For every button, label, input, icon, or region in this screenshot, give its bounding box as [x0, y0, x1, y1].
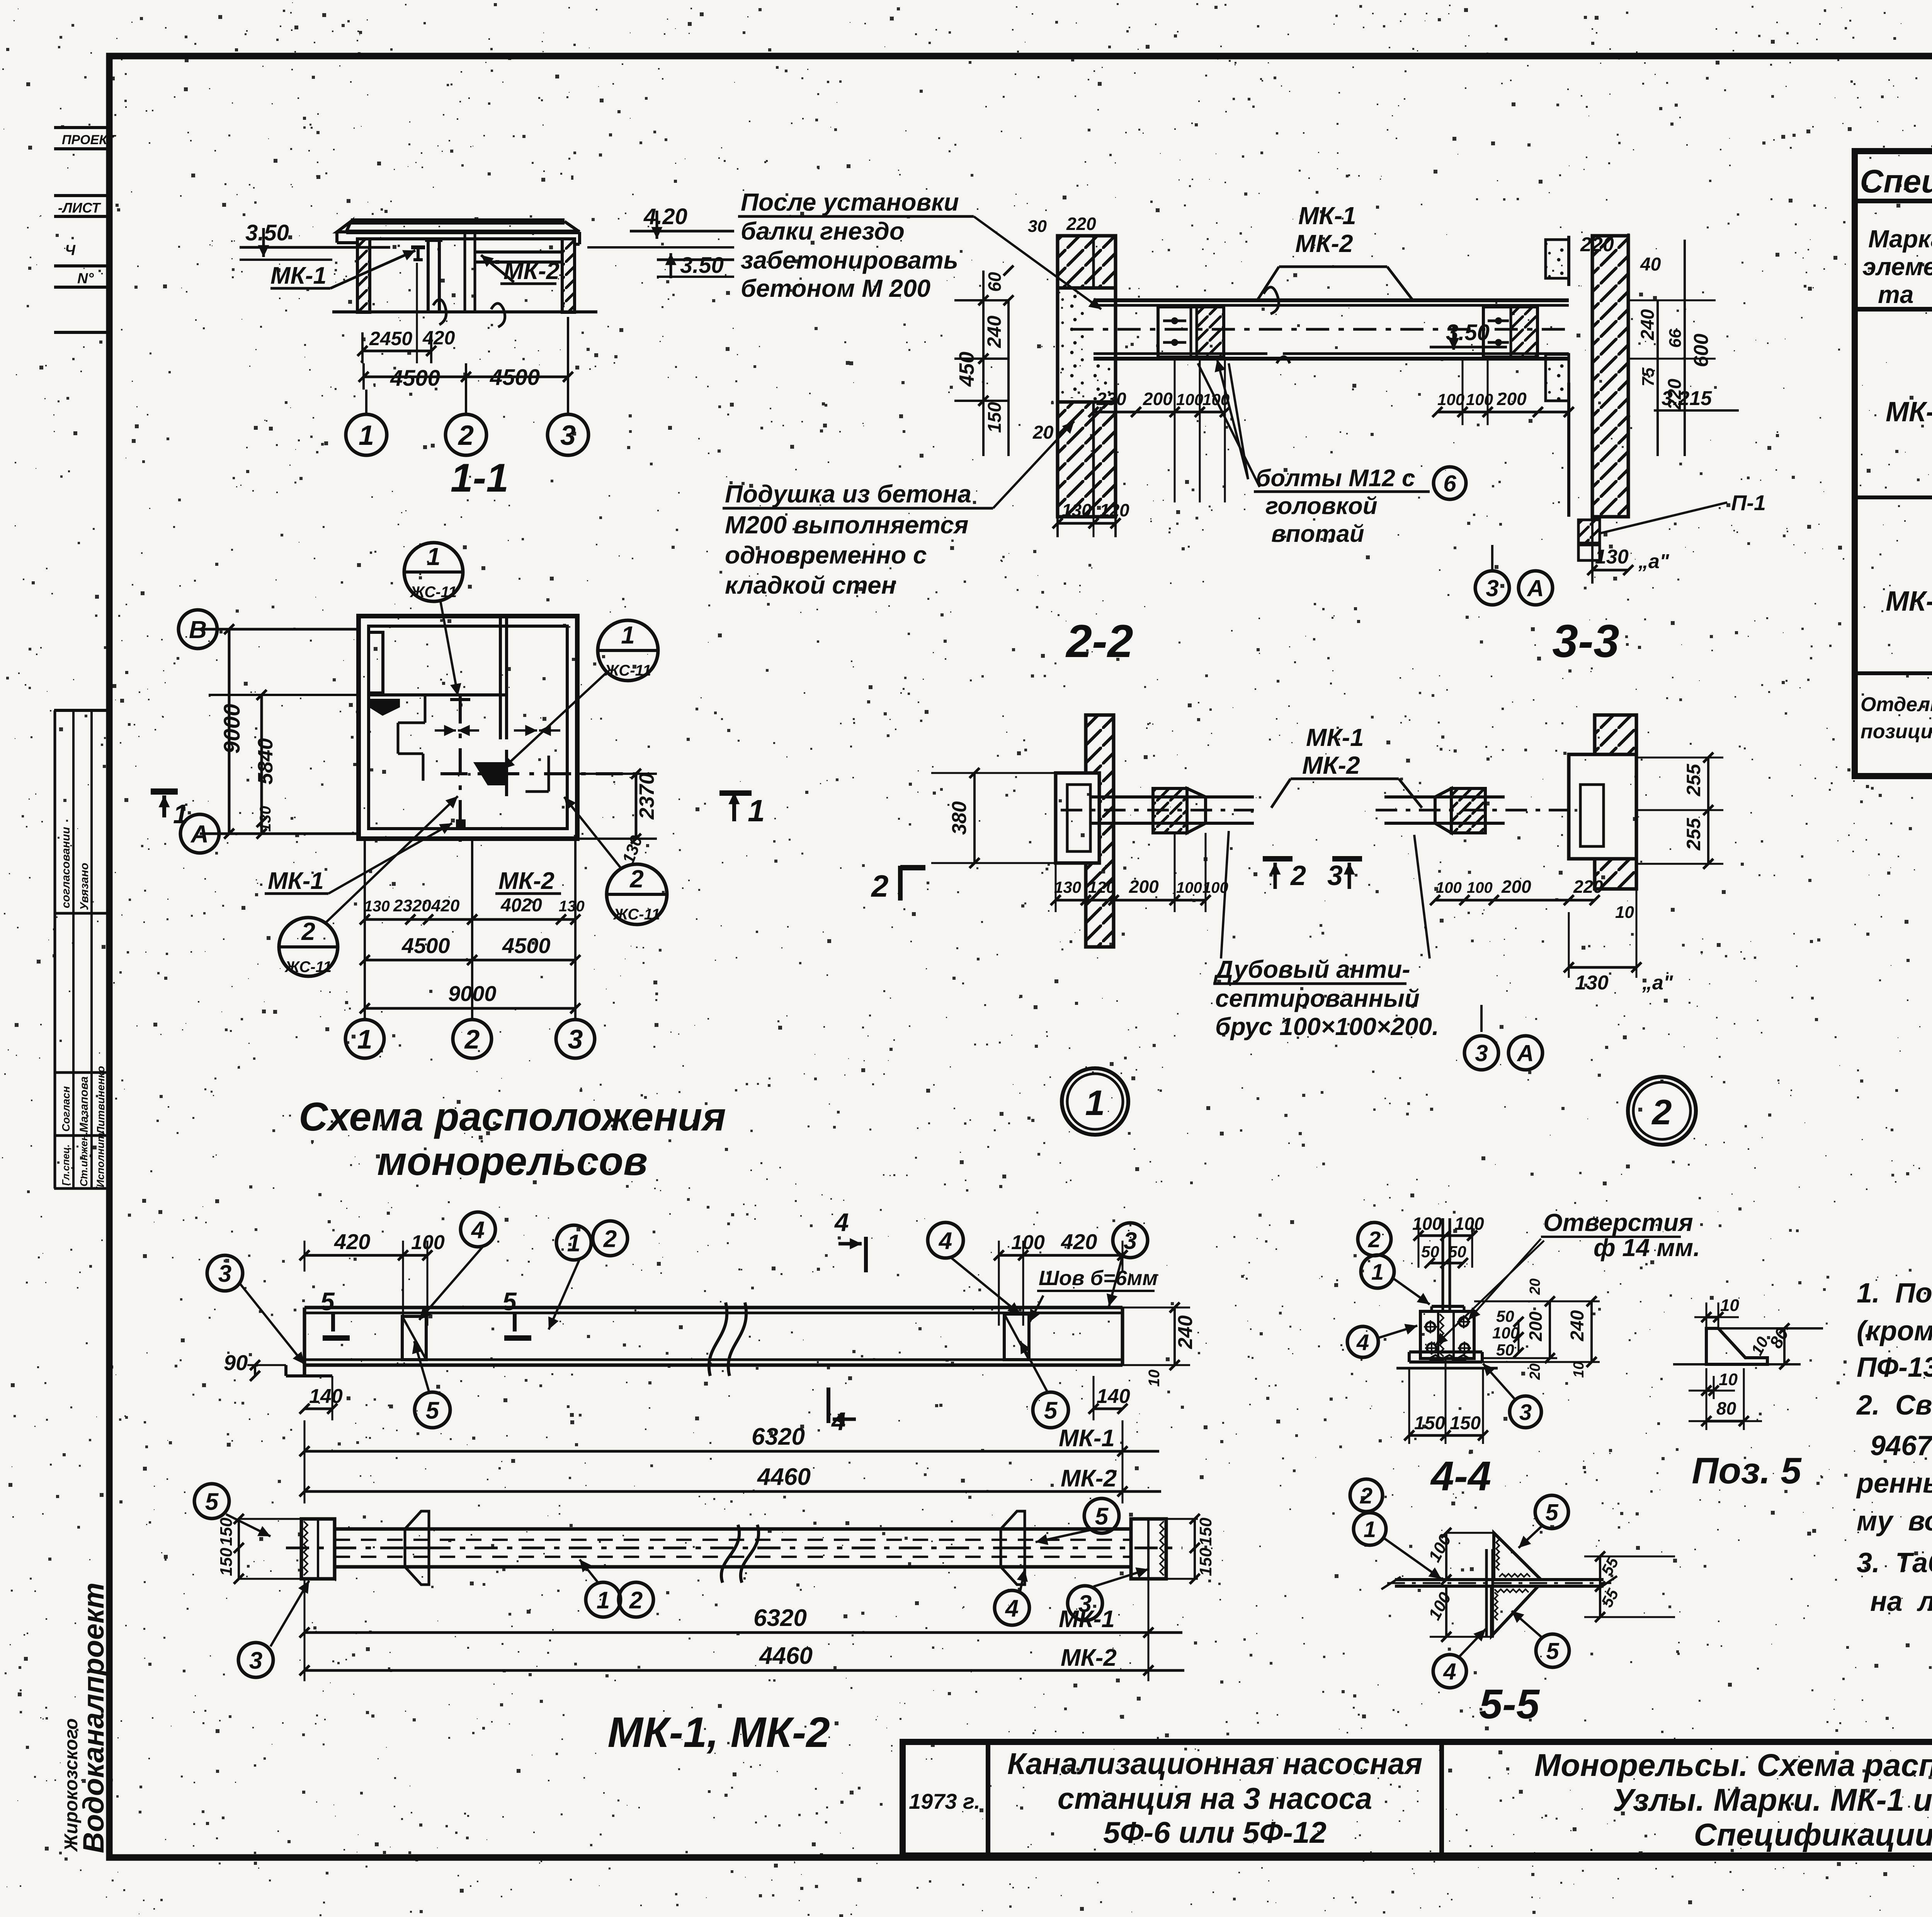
svg-text:2: 2: [301, 918, 315, 945]
svg-text:ЖС-11: ЖС-11: [410, 584, 457, 601]
svg-text:2: 2: [871, 869, 889, 903]
svg-text:1: 1: [357, 1024, 372, 1054]
svg-text:2: 2: [457, 420, 474, 451]
svg-text:3: 3: [568, 1024, 583, 1054]
svg-text:4-4: 4-4: [1430, 1452, 1491, 1499]
svg-text:130: 130: [1595, 546, 1629, 568]
svg-text:20: 20: [1032, 422, 1054, 443]
svg-text:N°: N°: [77, 271, 94, 287]
svg-text:100: 100: [1412, 1214, 1442, 1234]
svg-text:50: 50: [1496, 1307, 1514, 1325]
svg-text:80: 80: [1716, 1398, 1736, 1418]
svg-text:„а": „а": [1638, 550, 1670, 573]
svg-text:100: 100: [1466, 390, 1493, 409]
МК-1 МК-2 elevation (plan view): [194, 1484, 1215, 1756]
svg-text:3: 3: [1519, 1400, 1532, 1425]
svg-text:Мазапова: Мазапова: [78, 1076, 90, 1132]
svg-text:220: 220: [1580, 233, 1614, 256]
svg-text:2370: 2370: [635, 773, 658, 820]
svg-text:Схема расположения: Схема расположения: [299, 1095, 726, 1139]
svg-text:МК-1: МК-1: [1886, 397, 1932, 427]
svg-text:Отверстия: Отверстия: [1543, 1209, 1693, 1236]
svg-text:230: 230: [1096, 389, 1126, 409]
svg-text:3.50: 3.50: [245, 220, 289, 245]
svg-text:1: 1: [427, 543, 440, 570]
svg-text:240: 240: [1638, 309, 1658, 340]
svg-text:1: 1: [1364, 1517, 1376, 1542]
svg-text:140: 140: [1097, 1385, 1130, 1408]
svg-text:100: 100: [1176, 879, 1202, 896]
svg-text:Марка: Марка: [1868, 225, 1932, 253]
svg-text:3: 3: [1327, 860, 1343, 891]
svg-text:брус 100×100×200.: брус 100×100×200.: [1215, 1013, 1439, 1040]
svg-text:20: 20: [1527, 1364, 1543, 1380]
svg-text:6320: 6320: [753, 1605, 807, 1631]
svg-text:на листе ЖС-4.: на листе ЖС-4.: [1870, 1586, 1932, 1617]
svg-text:4020: 4020: [500, 895, 542, 916]
svg-text:Гл.спец.: Гл.спец.: [60, 1144, 71, 1186]
svg-text:5840: 5840: [254, 738, 277, 785]
svg-text:5: 5: [502, 1287, 517, 1316]
svg-text:П-1: П-1: [1731, 490, 1766, 515]
svg-text:А: А: [1526, 575, 1544, 601]
svg-text:4: 4: [834, 1208, 849, 1236]
svg-text:20: 20: [1527, 1279, 1543, 1295]
svg-text:МК-1: МК-1: [1059, 1425, 1115, 1452]
svg-text:100: 100: [1454, 1214, 1484, 1234]
svg-text:60: 60: [985, 272, 1005, 292]
svg-text:255: 255: [1683, 817, 1704, 851]
svg-text:МК-2: МК-2: [1061, 1465, 1117, 1492]
plan: схема расположения монорельсов: [151, 543, 726, 1184]
svg-text:420: 420: [431, 896, 460, 915]
svg-text:130: 130: [1575, 972, 1609, 994]
svg-text:55: 55: [1597, 1554, 1622, 1578]
svg-text:90: 90: [224, 1350, 248, 1375]
svg-text:100: 100: [1011, 1231, 1045, 1254]
svg-text:130: 130: [559, 898, 585, 915]
svg-text:420: 420: [1061, 1229, 1097, 1254]
svg-text:30: 30: [1028, 217, 1047, 236]
svg-text:Увязано: Увязано: [78, 863, 91, 910]
svg-text:ПРОЕКТ: ПРОЕКТ: [62, 133, 117, 147]
svg-text:5Ф-6 или 5Ф-12: 5Ф-6 или 5Ф-12: [1103, 1815, 1327, 1849]
svg-text:ЖС-11: ЖС-11: [613, 906, 660, 923]
svg-text:элемен-: элемен-: [1862, 253, 1932, 281]
svg-text:Поз. 5: Поз. 5: [1692, 1450, 1802, 1491]
svg-text:балки гнездо: балки гнездо: [741, 217, 905, 245]
svg-text:4: 4: [1443, 1659, 1456, 1685]
svg-text:болты М12 с: болты М12 с: [1256, 465, 1415, 492]
svg-text:150: 150: [1414, 1413, 1445, 1433]
big table: Спецификация стали: [1855, 151, 1932, 776]
svg-text:МК-1: МК-1: [1298, 202, 1356, 230]
svg-text:5: 5: [426, 1397, 440, 1424]
svg-text:ЖС-11: ЖС-11: [284, 958, 332, 976]
svg-text:МК-1: МК-1: [270, 262, 327, 289]
svg-text:Исполнит.: Исполнит.: [95, 1130, 106, 1187]
svg-text:240: 240: [1174, 1315, 1197, 1349]
svg-text:Согласн: Согласн: [60, 1086, 72, 1132]
svg-text:100: 100: [1437, 390, 1464, 409]
svg-text:Спецификации.: Спецификации.: [1694, 1817, 1932, 1852]
svg-text:2. Сварку производить электр: 2. Сварку производить электродами Э-42 Г…: [1856, 1390, 1932, 1421]
svg-text:50: 50: [1496, 1341, 1514, 1359]
svg-text:3-3: 3-3: [1552, 615, 1619, 667]
svg-text:10: 10: [1615, 903, 1634, 922]
svg-text:50: 50: [1421, 1243, 1439, 1261]
svg-text:4.20: 4.20: [643, 204, 687, 229]
svg-text:4: 4: [938, 1227, 952, 1254]
svg-text:5: 5: [1545, 1500, 1559, 1525]
svg-text:100: 100: [1425, 1531, 1455, 1565]
svg-text:1973 г.: 1973 г.: [909, 1789, 980, 1813]
svg-text:му возможному контуру.: му возможному контуру.: [1857, 1506, 1932, 1537]
section 1-1: [240, 204, 734, 501]
svg-text:4500: 4500: [401, 933, 450, 958]
svg-text:А: А: [1516, 1040, 1534, 1066]
svg-text:кладкой стен: кладкой стен: [725, 571, 896, 599]
svg-text:150: 150: [1196, 1517, 1215, 1546]
svg-text:2: 2: [603, 1226, 617, 1252]
svg-text:130: 130: [364, 898, 390, 915]
svg-text:2320: 2320: [393, 896, 431, 915]
svg-text:ф 14 мм.: ф 14 мм.: [1594, 1234, 1700, 1262]
svg-text:МК-2: МК-2: [498, 868, 554, 894]
svg-text:9467-60, толщина сварных шв: 9467-60, толщина сварных швов, кроме ого…: [1870, 1430, 1932, 1461]
svg-text:9000: 9000: [219, 704, 245, 754]
svg-text:66: 66: [1666, 329, 1685, 348]
svg-text:4500: 4500: [490, 365, 540, 390]
узел 1 and узел 2: [719, 715, 1723, 1145]
svg-text:10: 10: [1571, 1362, 1587, 1378]
svg-text:Литвиненко: Литвиненко: [95, 1066, 107, 1135]
svg-text:2: 2: [629, 865, 644, 893]
svg-text:2: 2: [629, 1587, 643, 1614]
svg-text:200: 200: [1526, 1311, 1546, 1342]
Поз. 5: [1673, 1296, 1823, 1491]
svg-text:М200 выполняется: М200 выполняется: [725, 511, 968, 539]
svg-text:600: 600: [1690, 334, 1713, 367]
svg-text:5: 5: [1044, 1397, 1058, 1424]
примечания: [1856, 1215, 1932, 1617]
detail 5-5: [1350, 1479, 1675, 1727]
svg-text:5: 5: [1095, 1503, 1109, 1530]
svg-text:10: 10: [1720, 1296, 1739, 1315]
svg-text:МК-1: МК-1: [268, 868, 324, 894]
svg-text:-ЛИСТ: -ЛИСТ: [58, 200, 101, 216]
svg-text:Подушка из бетона: Подушка из бетона: [725, 480, 971, 508]
detail 4-4: [1347, 1209, 1700, 1499]
svg-text:забетонировать: забетонировать: [741, 246, 958, 274]
svg-text:головкой: головкой: [1265, 493, 1378, 519]
svg-text:130: 130: [1054, 878, 1081, 896]
svg-text:Водоканалпроект: Водоканалпроект: [77, 1583, 110, 1853]
svg-text:2450: 2450: [369, 328, 412, 349]
svg-text:6: 6: [1443, 471, 1456, 497]
svg-text:Канализационная насосная: Канализационная насосная: [1007, 1747, 1422, 1781]
svg-text:МК-2: МК-2: [1061, 1645, 1117, 1671]
svg-text:3.215: 3.215: [1662, 387, 1712, 410]
svg-text:450: 450: [955, 352, 978, 387]
svg-text:позиции: позиции: [1861, 720, 1932, 743]
svg-text:1: 1: [597, 1587, 610, 1614]
svg-text:1-1: 1-1: [451, 456, 509, 501]
svg-text:240: 240: [1567, 1310, 1588, 1342]
svg-text:10: 10: [1719, 1370, 1738, 1389]
title block: [903, 1742, 1932, 1898]
svg-text:„а": „а": [1642, 972, 1673, 994]
svg-text:150: 150: [217, 1548, 236, 1576]
svg-text:220: 220: [1066, 214, 1096, 234]
svg-text:МК-2: МК-2: [1886, 586, 1932, 617]
svg-text:Узлы. Марки. МК-1 и МК-2.: Узлы. Марки. МК-1 и МК-2.: [1613, 1783, 1932, 1818]
svg-text:Спецификация стали на одно изд: Спецификация стали на одно изделие Ст.3 …: [1860, 163, 1932, 199]
left stamp boxes: [54, 128, 117, 1853]
svg-text:55: 55: [1597, 1585, 1622, 1610]
svg-text:3.50: 3.50: [680, 253, 724, 278]
svg-text:50: 50: [1448, 1243, 1466, 1261]
svg-text:впотай: впотай: [1271, 521, 1364, 547]
svg-text:6320: 6320: [752, 1423, 805, 1450]
svg-text:Отдельные: Отдельные: [1861, 693, 1932, 716]
svg-text:2: 2: [464, 1024, 480, 1054]
svg-text:бетоном М 200: бетоном М 200: [741, 274, 930, 302]
svg-text:Ч: Ч: [65, 242, 76, 259]
svg-text:2: 2: [1651, 1093, 1672, 1132]
svg-text:станция на 3 насоса: станция на 3 насоса: [1058, 1781, 1372, 1815]
svg-text:150: 150: [1450, 1413, 1481, 1433]
svg-text:согласовании: согласовании: [60, 827, 72, 908]
svg-text:ПФ-133 за 3 раза по слою: ПФ-133 за 3 раза по слою грунта из лака …: [1857, 1352, 1932, 1383]
svg-text:3: 3: [1124, 1227, 1137, 1254]
svg-text:А: А: [190, 820, 209, 848]
svg-text:200: 200: [1143, 389, 1173, 409]
svg-text:5: 5: [205, 1488, 219, 1515]
svg-text:3: 3: [218, 1260, 231, 1287]
svg-text:4: 4: [471, 1217, 485, 1243]
svg-text:4460: 4460: [759, 1643, 813, 1669]
svg-text:200: 200: [1497, 389, 1527, 409]
svg-text:2: 2: [1368, 1227, 1381, 1252]
svg-text:5: 5: [320, 1287, 335, 1316]
svg-text:100: 100: [1467, 879, 1493, 896]
svg-text:1: 1: [621, 621, 635, 649]
svg-text:220: 220: [1573, 877, 1603, 897]
svg-text:МК-1: МК-1: [1306, 724, 1364, 751]
svg-text:40: 40: [1640, 254, 1661, 275]
svg-text:2: 2: [1290, 860, 1306, 891]
svg-text:4: 4: [1005, 1595, 1019, 1622]
svg-text:1: 1: [1085, 1083, 1105, 1123]
svg-text:МК-1, МК-2: МК-1, МК-2: [607, 1709, 830, 1756]
svg-text:МК-1: МК-1: [1059, 1606, 1115, 1633]
section 2-2 and 3-3: [723, 188, 1766, 667]
svg-text:130: 130: [1062, 500, 1092, 520]
svg-text:монорельсов: монорельсов: [377, 1139, 648, 1184]
svg-text:После установки: После установки: [741, 188, 959, 216]
svg-text:140: 140: [309, 1385, 343, 1408]
svg-text:150: 150: [217, 1517, 236, 1546]
svg-text:150: 150: [1196, 1548, 1215, 1576]
svg-text:255: 255: [1683, 763, 1704, 797]
svg-text:3: 3: [1475, 1040, 1488, 1066]
svg-text:420: 420: [422, 327, 455, 349]
svg-text:2-2: 2-2: [1065, 615, 1133, 667]
svg-text:3: 3: [1486, 575, 1498, 601]
svg-text:МК-2: МК-2: [1295, 230, 1353, 257]
svg-text:МК-2: МК-2: [1302, 751, 1360, 779]
svg-text:3. Таблица толщин стен: 3. Таблица толщин стен представлена: [1857, 1548, 1932, 1578]
svg-text:120: 120: [1088, 878, 1115, 896]
svg-text:3: 3: [249, 1647, 262, 1674]
svg-text:В: В: [189, 616, 207, 644]
svg-text:100: 100: [1436, 879, 1462, 896]
svg-text:1: 1: [1371, 1260, 1384, 1285]
МК-1 МК-2 elevation (side): [207, 1208, 1197, 1503]
svg-text:200: 200: [1501, 877, 1531, 897]
svg-text:1. Поверхности стальных конс: 1. Поверхности стальных конструкций моно…: [1857, 1278, 1932, 1309]
svg-text:5: 5: [1546, 1638, 1560, 1664]
svg-text:4: 4: [1356, 1330, 1369, 1355]
svg-text:420: 420: [334, 1229, 370, 1254]
svg-text:та: та: [1878, 281, 1914, 308]
svg-text:10: 10: [1146, 1370, 1163, 1387]
svg-text:1: 1: [359, 420, 374, 451]
svg-text:4500: 4500: [502, 933, 551, 958]
svg-text:2: 2: [1360, 1483, 1372, 1508]
svg-text:1: 1: [173, 799, 188, 829]
svg-text:ренных, 10 мм, сварные швы: ренных, 10 мм, сварные швы выполнить по …: [1856, 1468, 1932, 1499]
svg-text:4500: 4500: [390, 366, 440, 391]
svg-text:1: 1: [748, 793, 765, 828]
svg-text:150: 150: [985, 402, 1005, 433]
svg-text:ЖС-11: ЖС-11: [604, 662, 651, 679]
svg-text:380: 380: [948, 801, 971, 835]
svg-text:септированный: септированный: [1215, 984, 1420, 1012]
svg-text:100: 100: [1425, 1589, 1455, 1623]
svg-text:200: 200: [1129, 877, 1159, 897]
svg-text:Монорельсы. Схема расположен: Монорельсы. Схема расположения.: [1534, 1748, 1932, 1783]
svg-text:Шов б=6мм: Шов б=6мм: [1039, 1267, 1158, 1290]
svg-text:4460: 4460: [757, 1464, 811, 1490]
svg-text:130: 130: [257, 806, 274, 832]
svg-text:одновременно с: одновременно с: [725, 541, 927, 569]
svg-text:240: 240: [983, 315, 1005, 348]
svg-text:(кроме трущихся) окрасить э: (кроме трущихся) окрасить эмалью ПФ-115 …: [1857, 1316, 1932, 1347]
svg-text:Ст.инжен.: Ст.инжен.: [78, 1132, 90, 1187]
svg-text:Дубовый анти-: Дубовый анти-: [1213, 955, 1410, 983]
